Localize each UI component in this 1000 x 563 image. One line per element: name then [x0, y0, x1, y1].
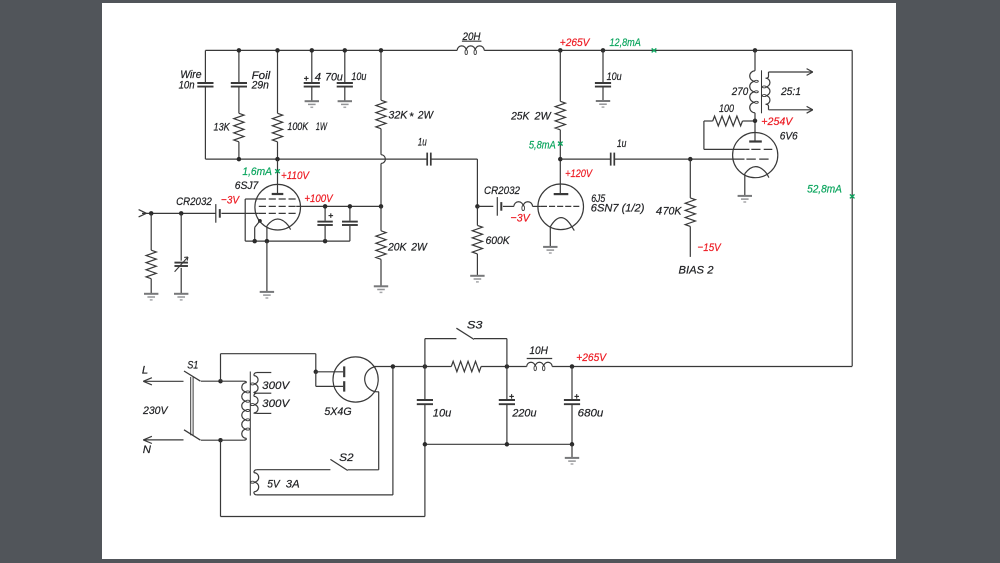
svg-text:4: 4	[315, 71, 321, 83]
svg-text:20H: 20H	[462, 31, 482, 43]
svg-text:2: 2	[706, 265, 714, 277]
svg-text:1u: 1u	[418, 136, 428, 148]
svg-text:2W: 2W	[410, 241, 428, 253]
svg-text:BIAS: BIAS	[679, 265, 705, 277]
svg-text:100: 100	[719, 103, 735, 115]
svg-text:−3V: −3V	[511, 212, 532, 224]
svg-text:6SJ7: 6SJ7	[235, 180, 259, 192]
svg-text:*: *	[409, 111, 414, 123]
svg-text:600K: 600K	[486, 235, 511, 247]
svg-text:32K: 32K	[388, 109, 407, 121]
svg-text:−3V: −3V	[221, 195, 240, 207]
svg-text:5X4G: 5X4G	[324, 406, 351, 418]
svg-text:2W: 2W	[417, 109, 434, 121]
svg-text:5,8mA: 5,8mA	[529, 139, 556, 151]
svg-text:CR2032: CR2032	[176, 196, 212, 208]
svg-text:1,6mA: 1,6mA	[242, 166, 272, 178]
svg-text:6V6: 6V6	[780, 131, 799, 143]
svg-text:230V: 230V	[142, 405, 169, 417]
svg-text:52,8mA: 52,8mA	[807, 184, 842, 196]
svg-text:270: 270	[731, 86, 749, 98]
svg-text:2W: 2W	[534, 110, 552, 122]
svg-text:N: N	[143, 444, 152, 456]
svg-text:29n: 29n	[251, 80, 269, 92]
svg-text:4: 4	[656, 206, 662, 218]
svg-text:+100V: +100V	[304, 193, 333, 205]
svg-text:+254V: +254V	[761, 116, 793, 128]
svg-text:L: L	[142, 364, 148, 376]
svg-text:+265V: +265V	[560, 37, 591, 49]
svg-text:220u: 220u	[511, 408, 537, 420]
svg-text:100K: 100K	[287, 121, 308, 133]
svg-text:680u: 680u	[578, 408, 604, 420]
svg-text:70K: 70K	[663, 206, 682, 218]
svg-text:CR2032: CR2032	[484, 185, 521, 197]
svg-text:300V: 300V	[262, 398, 290, 410]
svg-text:20K: 20K	[387, 241, 407, 253]
svg-text:70u: 70u	[325, 71, 343, 83]
svg-text:1W: 1W	[316, 121, 328, 133]
svg-text:10u: 10u	[607, 71, 623, 83]
svg-text:+265V: +265V	[576, 352, 607, 364]
svg-text:1u: 1u	[617, 138, 627, 150]
svg-text:+110V: +110V	[281, 170, 310, 182]
svg-text:300V: 300V	[262, 380, 290, 392]
svg-text:10n: 10n	[179, 80, 195, 92]
svg-text:12,8mA: 12,8mA	[610, 37, 641, 49]
svg-text:10H: 10H	[529, 345, 548, 357]
svg-text:3A: 3A	[286, 478, 300, 490]
svg-text:25K: 25K	[510, 110, 530, 122]
svg-text:10u: 10u	[433, 408, 452, 420]
svg-text:6SN7 (1/2): 6SN7 (1/2)	[591, 203, 645, 215]
svg-text:S1: S1	[187, 360, 198, 372]
svg-text:S3: S3	[467, 319, 483, 331]
svg-text:+120V: +120V	[565, 168, 593, 180]
svg-text:10u: 10u	[351, 71, 367, 83]
svg-text:−15V: −15V	[698, 242, 722, 254]
svg-text:13K: 13K	[214, 122, 231, 134]
svg-text:5V: 5V	[267, 478, 281, 490]
svg-text:25:1: 25:1	[780, 86, 801, 98]
svg-text:S2: S2	[339, 452, 354, 464]
